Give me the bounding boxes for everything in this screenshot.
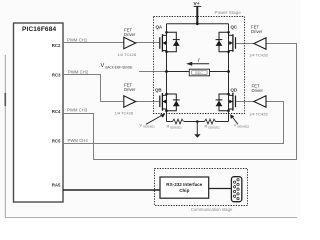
svg-text:RA5: RA5 [52, 182, 61, 187]
svg-text:BDC: BDC [195, 71, 203, 75]
svg-text:1/4 TC428: 1/4 TC428 [118, 52, 137, 57]
svg-text:Driver: Driver [124, 32, 136, 37]
svg-text:I: I [198, 58, 200, 64]
svg-text:SENSE1: SENSE1 [170, 126, 182, 130]
svg-text:QD: QD [231, 88, 238, 93]
svg-text:SENSE2: SENSE2 [208, 126, 220, 130]
svg-text:PWM CH1: PWM CH1 [67, 37, 88, 42]
svg-text:QC: QC [231, 25, 238, 30]
svg-text:RC3: RC3 [52, 73, 61, 78]
svg-text:1/4 TC428: 1/4 TC428 [115, 110, 134, 115]
svg-text:Driver: Driver [124, 87, 136, 92]
svg-text:PWM CH4: PWM CH4 [68, 138, 89, 143]
svg-text:RS-232 Interface: RS-232 Interface [166, 182, 202, 187]
svg-text:Communication stage: Communication stage [191, 207, 233, 212]
svg-text:Driver: Driver [252, 88, 264, 93]
svg-text:1/4 TC428: 1/4 TC428 [249, 111, 268, 116]
svg-text:BACK-EMF-SENSE: BACK-EMF-SENSE [106, 65, 133, 69]
svg-text:PWM CH2: PWM CH2 [68, 70, 89, 75]
svg-text:RC4: RC4 [52, 109, 61, 114]
svg-text:RC2: RC2 [52, 43, 61, 48]
svg-text:Chip: Chip [179, 188, 189, 193]
svg-text:SENSE1: SENSE1 [143, 124, 155, 128]
svg-text:SENSE2: SENSE2 [237, 124, 249, 128]
svg-text:RC5: RC5 [52, 138, 61, 143]
svg-text:QB: QB [155, 88, 162, 93]
svg-text:QA: QA [156, 25, 163, 30]
svg-text:PIC16F684: PIC16F684 [22, 26, 56, 33]
svg-text:1/4 TC428: 1/4 TC428 [249, 52, 268, 57]
svg-text:Driver: Driver [251, 29, 263, 34]
svg-text:Power Stage: Power Stage [215, 10, 242, 15]
svg-text:PWM CH3: PWM CH3 [67, 108, 88, 113]
svg-text:V: V [101, 63, 105, 69]
